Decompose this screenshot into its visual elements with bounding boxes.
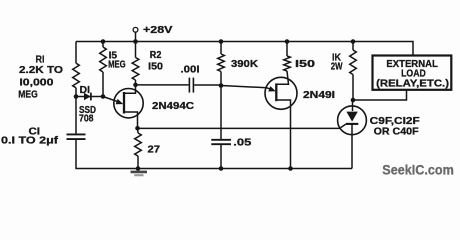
svg-text:(RELAY,ETC.): (RELAY,ETC.)	[376, 78, 449, 89]
svg-text:0.I TO 2μf: 0.I TO 2μf	[1, 136, 59, 147]
svg-text:OR C40F: OR C40F	[374, 127, 419, 138]
svg-text:I50: I50	[148, 62, 163, 73]
svg-text:+28V: +28V	[143, 25, 173, 36]
svg-text:2.2K TO: 2.2K TO	[19, 65, 63, 76]
svg-text:MEG: MEG	[108, 60, 126, 71]
svg-text:I50: I50	[295, 59, 315, 70]
svg-text:708: 708	[79, 114, 94, 125]
svg-text:2W: 2W	[331, 62, 343, 73]
svg-text:.05: .05	[233, 138, 251, 149]
svg-text:2N494C: 2N494C	[152, 101, 195, 112]
svg-text:SeekIC.com: SeekIC.com	[382, 162, 454, 178]
svg-text:MEG: MEG	[18, 89, 38, 100]
svg-text:2N49I: 2N49I	[303, 90, 335, 101]
svg-text:27: 27	[148, 144, 161, 155]
svg-text:I0,000: I0,000	[19, 77, 53, 88]
svg-text:DI: DI	[80, 85, 91, 96]
svg-text:RI: RI	[36, 54, 45, 65]
svg-text:390K: 390K	[231, 59, 259, 70]
svg-text:.00I: .00I	[181, 65, 200, 76]
svg-text:R2: R2	[150, 50, 162, 61]
